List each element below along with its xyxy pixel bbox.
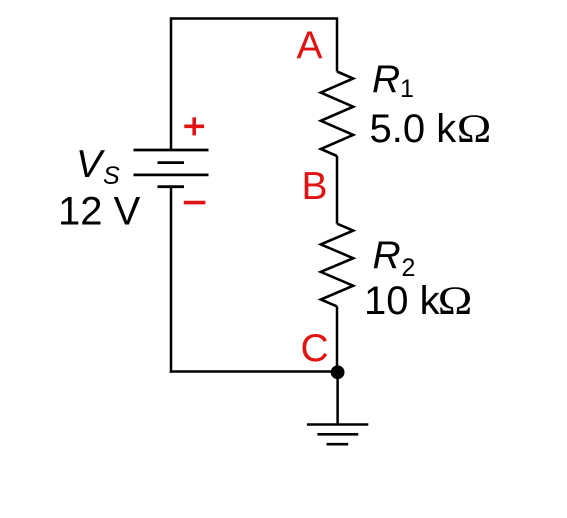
svg-text:V: V [76,143,106,186]
svg-text:R: R [372,58,400,101]
wire bottom from battery - to node C [170,370,338,373]
svg-text:Ω: Ω [457,107,492,152]
ground bar 2 [317,433,358,436]
svg-text:A: A [297,24,323,67]
svg-text:2: 2 [402,254,416,282]
junction dot node C [331,365,345,379]
label + [184,117,204,135]
ground bar 1 [307,423,368,426]
resistor R2 zigzag [321,224,353,307]
resistor R1 zigzag [321,72,353,157]
svg-text:12 V: 12 V [58,190,141,234]
wire top from battery + to node A [171,17,337,20]
wire right vertical node A to R1 [336,17,339,71]
battery VS plate short bottom (-) [158,185,185,188]
wire ground stem [336,372,339,424]
ground bar 3 [327,443,349,446]
battery VS plate short [158,161,185,164]
wire right vertical R1 to R2 (node B) [336,156,339,224]
label - [184,201,206,205]
svg-text:R: R [373,234,401,277]
svg-text:5.0 k: 5.0 k [370,107,458,151]
svg-text:C: C [301,327,329,370]
wire left vertical from battery to bottom [170,186,173,372]
svg-text:S: S [103,162,120,190]
wire left vertical from top to battery [170,17,173,150]
svg-text:1: 1 [400,75,414,103]
svg-text:B: B [302,165,328,208]
battery VS plate long [134,173,209,176]
svg-text:Ω: Ω [438,279,473,324]
battery VS plate long top (+) [134,149,209,152]
wire right vertical R2 to node C [336,306,339,372]
svg-text:10 k: 10 k [364,279,441,323]
